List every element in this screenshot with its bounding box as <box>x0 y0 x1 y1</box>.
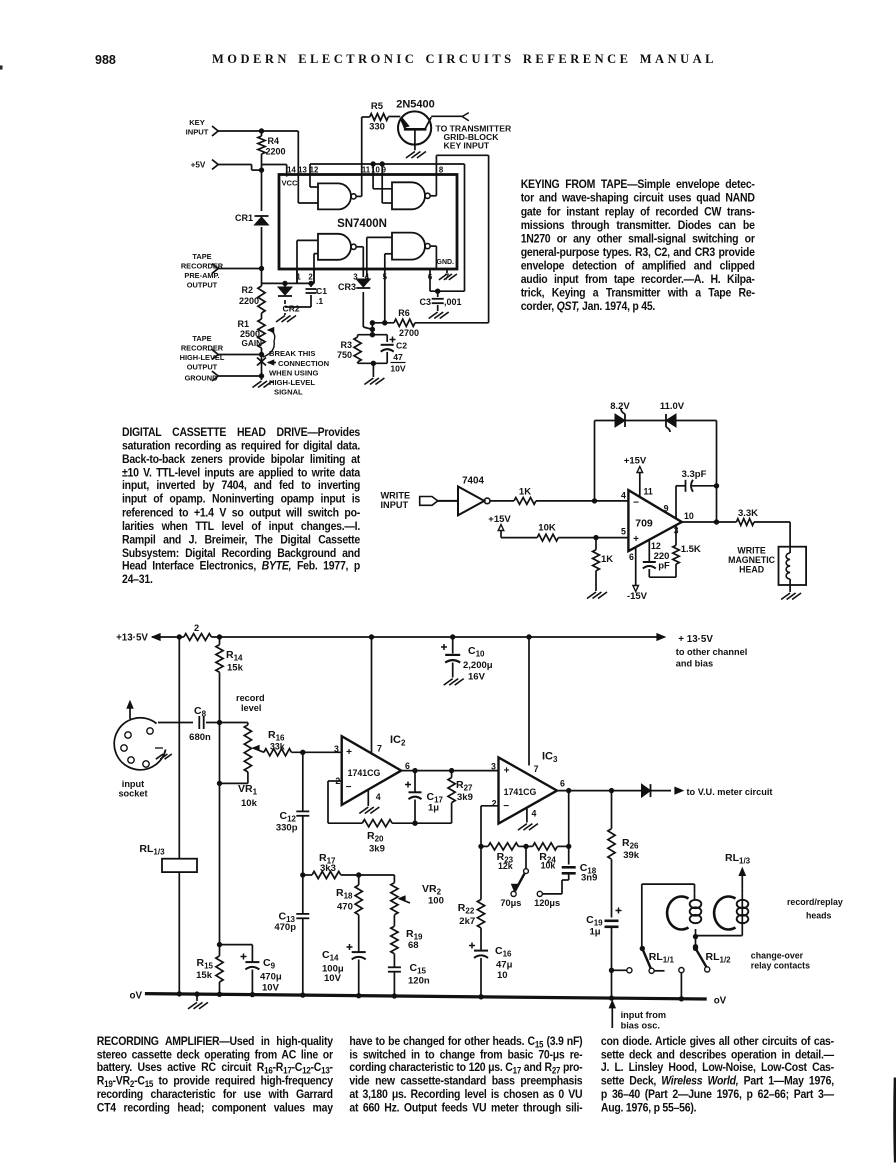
svg-text:,001: ,001 <box>444 297 462 307</box>
svg-text:oV: oV <box>714 996 727 1007</box>
svg-text:C12: C12 <box>280 810 297 824</box>
svg-text:level: level <box>241 703 261 713</box>
svg-text:2200: 2200 <box>239 296 259 306</box>
svg-text:680n: 680n <box>189 732 211 743</box>
svg-text:10k: 10k <box>241 798 258 809</box>
svg-text:16V: 16V <box>468 672 486 683</box>
svg-text:INPUT: INPUT <box>186 128 209 137</box>
svg-text:−: − <box>633 498 639 509</box>
svg-text:33k: 33k <box>270 742 285 752</box>
svg-text:INPUT: INPUT <box>381 500 409 510</box>
svg-text:10K: 10K <box>538 523 556 534</box>
svg-text:oV: oV <box>129 991 142 1002</box>
svg-text:+15V: +15V <box>624 456 647 467</box>
svg-text:VR2: VR2 <box>422 883 442 897</box>
svg-text:3k3: 3k3 <box>320 863 336 874</box>
svg-text:10V: 10V <box>324 973 342 984</box>
svg-text:R2: R2 <box>241 285 253 295</box>
svg-text:input from: input from <box>621 1010 666 1020</box>
svg-text:5: 5 <box>621 527 626 537</box>
svg-text:and bias: and bias <box>676 659 713 669</box>
svg-text:VR1: VR1 <box>238 783 258 797</box>
svg-text:-15V: -15V <box>627 591 648 602</box>
svg-text:470: 470 <box>337 902 353 913</box>
svg-text:120μs: 120μs <box>534 898 560 908</box>
svg-text:330: 330 <box>369 122 385 133</box>
svg-text:C19: C19 <box>586 914 603 928</box>
svg-text:socket: socket <box>118 789 147 799</box>
svg-text:SIGNAL: SIGNAL <box>274 388 303 397</box>
svg-text:7404: 7404 <box>462 476 484 487</box>
svg-text:−: − <box>346 782 352 793</box>
svg-text:13: 13 <box>298 166 307 175</box>
svg-text:68: 68 <box>408 940 419 951</box>
svg-text:47: 47 <box>393 352 403 362</box>
svg-text:2: 2 <box>194 623 199 633</box>
svg-text:10k: 10k <box>541 861 556 871</box>
svg-text:15k: 15k <box>227 663 244 674</box>
svg-text:RL1/2: RL1/2 <box>706 951 732 965</box>
svg-text:8: 8 <box>439 166 444 175</box>
svg-text:R6: R6 <box>398 308 410 318</box>
svg-text:750: 750 <box>337 350 352 360</box>
svg-text:2N5400: 2N5400 <box>396 99 435 111</box>
svg-text:HEAD: HEAD <box>739 565 764 575</box>
svg-text:KEY INPUT: KEY INPUT <box>444 140 490 150</box>
svg-text:+: + <box>504 766 510 777</box>
svg-text:7: 7 <box>377 744 382 754</box>
svg-text:4: 4 <box>621 491 626 501</box>
svg-text:+: + <box>633 534 639 545</box>
svg-text:WHEN USING: WHEN USING <box>269 369 318 378</box>
svg-text:3k9: 3k9 <box>369 844 385 855</box>
svg-text:2k7: 2k7 <box>459 916 475 927</box>
svg-text:R18: R18 <box>336 887 353 901</box>
svg-text:470μ: 470μ <box>260 972 282 983</box>
svg-text:+13·5V: +13·5V <box>116 633 148 644</box>
svg-text:VCC: VCC <box>281 179 298 188</box>
svg-text:BREAK THIS: BREAK THIS <box>269 349 315 358</box>
svg-text:2500: 2500 <box>240 329 260 339</box>
svg-text:1K: 1K <box>519 487 531 498</box>
svg-text:3.3pF: 3.3pF <box>682 469 707 480</box>
svg-text:10: 10 <box>684 511 694 521</box>
svg-text:12: 12 <box>651 541 661 551</box>
svg-text:input: input <box>122 779 144 789</box>
svg-text:470p: 470p <box>274 922 296 933</box>
svg-text:HIGH-LEVEL: HIGH-LEVEL <box>269 378 315 387</box>
svg-text:2,200μ: 2,200μ <box>463 660 493 671</box>
svg-text:R27: R27 <box>456 779 473 793</box>
svg-text:CR2: CR2 <box>283 304 300 314</box>
svg-text:C14: C14 <box>322 949 339 963</box>
svg-text:C10: C10 <box>468 645 485 659</box>
svg-text:IC3: IC3 <box>542 751 558 765</box>
svg-text:2: 2 <box>308 273 313 282</box>
svg-text:RL1/3: RL1/3 <box>725 852 751 866</box>
svg-text:10V: 10V <box>262 983 280 994</box>
svg-text:4: 4 <box>376 792 381 802</box>
svg-text:C16: C16 <box>495 945 512 959</box>
svg-text:R20: R20 <box>367 830 384 844</box>
svg-text:RECORDER: RECORDER <box>181 344 224 353</box>
svg-text:GAIN: GAIN <box>242 339 263 348</box>
svg-text:R26: R26 <box>622 837 639 851</box>
svg-text:6: 6 <box>629 552 634 562</box>
svg-text:3k9: 3k9 <box>457 792 473 803</box>
svg-text:WRITE: WRITE <box>381 491 411 501</box>
svg-text:bias osc.: bias osc. <box>621 1021 660 1031</box>
svg-text:R4: R4 <box>268 136 280 146</box>
svg-text:−: − <box>503 801 509 812</box>
svg-text:3: 3 <box>491 762 496 772</box>
svg-text:12k: 12k <box>498 861 513 871</box>
svg-text:GND.: GND. <box>437 259 455 266</box>
svg-text:R16: R16 <box>268 729 285 743</box>
svg-text:R5: R5 <box>371 101 384 112</box>
svg-text:15k: 15k <box>196 970 213 981</box>
svg-text:1μ: 1μ <box>590 927 601 938</box>
svg-text:CR3: CR3 <box>338 282 356 292</box>
svg-text:1741CG: 1741CG <box>348 768 381 778</box>
svg-text:12: 12 <box>310 166 319 175</box>
svg-text:2200: 2200 <box>266 147 286 157</box>
svg-text:MAGNETIC: MAGNETIC <box>728 555 776 565</box>
svg-text:record: record <box>236 693 265 703</box>
svg-text:R22: R22 <box>458 902 475 916</box>
svg-text:C2: C2 <box>396 341 407 351</box>
svg-text:to other channel: to other channel <box>676 647 747 657</box>
svg-text:11: 11 <box>644 487 653 497</box>
svg-text:heads: heads <box>806 911 832 921</box>
svg-text:change-over: change-over <box>751 951 804 961</box>
svg-text:RL1/3: RL1/3 <box>139 843 165 857</box>
svg-text:11: 11 <box>362 166 371 175</box>
svg-text:record/replay: record/replay <box>787 897 843 907</box>
svg-text:47μ: 47μ <box>496 960 513 971</box>
svg-text:OUTPUT: OUTPUT <box>187 363 218 372</box>
svg-text:WRITE: WRITE <box>737 546 765 556</box>
svg-text:11.0V: 11.0V <box>660 401 685 412</box>
svg-text:C15: C15 <box>410 962 427 976</box>
svg-text:2700: 2700 <box>399 328 419 338</box>
svg-text:14: 14 <box>287 166 296 175</box>
svg-text:+: + <box>346 747 352 758</box>
svg-text:C1: C1 <box>316 286 327 296</box>
svg-text:3.3K: 3.3K <box>738 508 758 519</box>
svg-text:7: 7 <box>534 764 539 774</box>
svg-text:6: 6 <box>560 779 565 789</box>
svg-text:R3: R3 <box>340 340 352 350</box>
svg-text:R1: R1 <box>237 319 249 329</box>
svg-text:RL1/1: RL1/1 <box>649 951 675 965</box>
svg-text:1741CG: 1741CG <box>504 787 537 797</box>
svg-text:+15V: +15V <box>488 514 511 525</box>
svg-text:120n: 120n <box>408 976 430 987</box>
svg-text:10V: 10V <box>390 364 406 374</box>
svg-text:6: 6 <box>405 761 410 771</box>
svg-text:R14: R14 <box>226 649 243 663</box>
svg-text:709: 709 <box>635 518 653 530</box>
svg-text:8.2V: 8.2V <box>610 401 630 412</box>
svg-text:39k: 39k <box>623 850 640 861</box>
svg-text:70μs: 70μs <box>500 898 521 908</box>
svg-text:4: 4 <box>532 809 537 819</box>
svg-text:100: 100 <box>428 896 444 907</box>
svg-text:3n9: 3n9 <box>581 873 597 884</box>
svg-text:OUTPUT: OUTPUT <box>187 281 218 290</box>
svg-text:1μ: 1μ <box>428 803 439 814</box>
svg-text:TAPE: TAPE <box>192 252 211 261</box>
svg-text:R15: R15 <box>197 957 214 971</box>
svg-text:2: 2 <box>492 799 497 809</box>
svg-text:9: 9 <box>664 503 669 513</box>
svg-text:IC2: IC2 <box>390 734 406 748</box>
svg-text:C9: C9 <box>263 957 276 971</box>
svg-text:1.5K: 1.5K <box>681 544 701 555</box>
svg-text:1K: 1K <box>601 554 613 565</box>
svg-text:C3: C3 <box>419 297 431 307</box>
svg-text:10: 10 <box>497 970 508 981</box>
svg-text:C8: C8 <box>194 705 207 719</box>
svg-text:relay contacts: relay contacts <box>751 961 810 971</box>
svg-text:to V.U. meter circuit: to V.U. meter circuit <box>687 787 773 797</box>
svg-text:+5V: +5V <box>191 161 206 170</box>
svg-text:3: 3 <box>334 744 339 754</box>
svg-text:KEY: KEY <box>189 118 205 127</box>
svg-text:+ 13·5V: + 13·5V <box>678 634 713 645</box>
svg-text:SN7400N: SN7400N <box>337 218 387 230</box>
svg-text:.1: .1 <box>316 296 323 306</box>
svg-text:TAPE: TAPE <box>192 334 211 343</box>
svg-text:CONNECTION: CONNECTION <box>278 359 329 368</box>
svg-text:pF: pF <box>658 561 670 572</box>
svg-text:CR1: CR1 <box>235 213 253 223</box>
svg-text:330p: 330p <box>276 823 298 834</box>
